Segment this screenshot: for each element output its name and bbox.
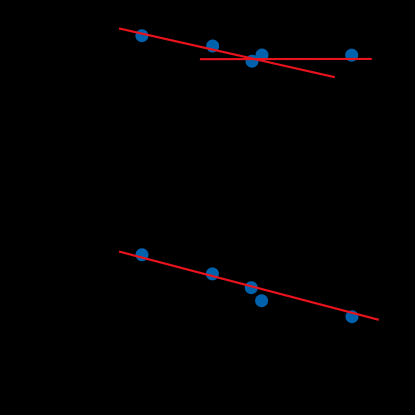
top panel: scatter point 5 — [345, 49, 358, 62]
top panel: scatter point 1 — [135, 29, 148, 42]
bottom panel: scatter point 1 — [136, 248, 149, 261]
top panel: scatter point 3 — [256, 49, 269, 62]
top panel: scatter point 4 — [246, 55, 259, 68]
bottom panel: regression line — [119, 252, 379, 320]
top panel: regression line (steep) — [119, 28, 335, 77]
bottom panel: scatter point 3 — [245, 281, 258, 294]
top panel: scatter point 2 — [206, 40, 219, 53]
top panel: regression line (flat) — [200, 58, 372, 60]
bottom panel: scatter point 4 — [255, 294, 268, 307]
bottom panel: scatter point 5 — [346, 310, 359, 323]
bottom panel: scatter point 2 — [206, 267, 219, 280]
